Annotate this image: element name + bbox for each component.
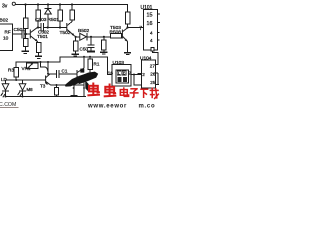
- wire resistor x60 down: [59, 21, 61, 28]
- wire base T3: [6, 79, 46, 81]
- wire to IC101 pin7: [128, 27, 144, 29]
- wire C501 to base node: [24, 33, 30, 35]
- svg-text:16: 16: [108, 71, 114, 76]
- resistor R bias upper: [23, 18, 28, 29]
- wire T503 emitter to ground: [127, 42, 129, 53]
- svg-text:VR1: VR1: [22, 66, 31, 71]
- svg-text:LD: LD: [1, 77, 8, 82]
- svg-text:C1: C1: [62, 69, 68, 74]
- capacitor C502: [40, 23, 42, 32]
- pin4a stub: [158, 32, 160, 34]
- svg-text:4: 4: [150, 31, 153, 36]
- resistor R501: [58, 10, 63, 21]
- svg-text:4: 4: [150, 38, 153, 43]
- red char chong2: [104, 84, 117, 97]
- svg-text:C501: C501: [14, 27, 26, 33]
- resistor R collector T501: [36, 10, 41, 21]
- resistor R502: [70, 10, 75, 20]
- wire C1 to T4 base: [59, 73, 77, 75]
- wire to C1 node: [47, 62, 49, 74]
- wire rail branch x25.5: [25, 5, 27, 19]
- labels: [0, 4, 156, 93]
- pin4b stub: [158, 39, 160, 41]
- svg-text:T501: T501: [37, 34, 48, 40]
- svg-text:U103: U103: [113, 60, 125, 66]
- ground under R bias: [25, 47, 27, 51]
- transistor T502: [67, 23, 75, 36]
- capacitor C1: [48, 73, 56, 75]
- wire top supply rail: [16, 5, 128, 13]
- watermark: [0, 69, 159, 110]
- svg-text:U101: U101: [141, 5, 153, 11]
- wire R3 bottom: [15, 77, 17, 80]
- red char dian: [120, 87, 128, 96]
- diode B502: [80, 33, 87, 40]
- black worm icon button: [80, 69, 84, 73]
- wire pin26-25 tie: [157, 73, 159, 85]
- pin2 stub IC104: [138, 73, 142, 75]
- wire bias node: [25, 29, 27, 35]
- svg-text:C503: C503: [35, 17, 47, 23]
- wire IC101 bottom pin to IC104 pin27: [153, 50, 159, 65]
- svg-text:U104: U104: [140, 56, 152, 62]
- transistor T501: [30, 27, 38, 42]
- svg-text:T3: T3: [40, 83, 46, 88]
- transistor T503: [122, 28, 127, 42]
- wire rail branch x60: [59, 5, 61, 11]
- svg-text:D: D: [123, 71, 126, 75]
- resistor R3: [14, 68, 19, 78]
- node rail junctions: [24, 3, 73, 5]
- wire emitter T3 rail: [51, 84, 84, 86]
- svg-text:B502: B502: [78, 28, 90, 34]
- wire rail branch x72: [71, 5, 73, 11]
- node base T501: [25, 33, 27, 35]
- red char zi: [130, 89, 139, 98]
- transistor T3: [46, 74, 51, 85]
- ground G5: [100, 52, 108, 53]
- svg-text:R1: R1: [94, 62, 100, 67]
- red char xia: [140, 89, 148, 98]
- ground G4: [87, 50, 95, 52]
- wire rail branch x48 (diode): [47, 5, 49, 8]
- capacitor C504: [90, 37, 92, 45]
- IC103 inner display box: [116, 70, 129, 83]
- ground G2: [35, 56, 42, 58]
- svg-text:RF: RF: [5, 30, 11, 35]
- battery terminal: [12, 2, 15, 5]
- node collector T503: [126, 26, 128, 28]
- svg-text:R3: R3: [8, 68, 14, 73]
- svg-text:C502: C502: [38, 30, 49, 35]
- resistor R emitter T502: [73, 41, 77, 51]
- node 3V supply label: [0, 0, 1, 1]
- svg-text:L: L: [118, 71, 120, 75]
- black worm icon tail: [85, 81, 90, 92]
- wire IC103 pin17 to IC104: [131, 74, 142, 76]
- pin16 stub: [158, 21, 161, 23]
- svg-text:10: 10: [3, 36, 9, 42]
- resistor R508: [111, 34, 122, 38]
- resistor R1: [89, 56, 91, 58]
- wire collector node T501: [37, 26, 39, 28]
- wire T4 collector: [83, 57, 85, 68]
- svg-text:3v: 3v: [2, 4, 8, 10]
- red char chong1: [87, 83, 100, 96]
- wire emitter to diode: [76, 36, 80, 38]
- resistor emitter T501: [36, 43, 41, 53]
- svg-text:26: 26: [150, 71, 156, 76]
- svg-text:M8: M8: [27, 87, 34, 92]
- svg-text:B02: B02: [0, 18, 8, 24]
- svg-text:www.eewor: www.eewor: [87, 103, 127, 109]
- svg-text:16: 16: [147, 21, 153, 27]
- svg-text:R508: R508: [110, 30, 122, 36]
- potentiometer VR1 box: [27, 63, 39, 68]
- wire mid coupling: [43, 27, 66, 29]
- pin25 stub: [156, 84, 159, 86]
- resistor collector T503: [125, 12, 130, 24]
- black worm icon wing right: [79, 72, 99, 85]
- transistor T4: [77, 68, 84, 81]
- pin27 stub: [156, 64, 159, 66]
- svg-text:R501: R501: [48, 17, 60, 23]
- LED LD1: [5, 80, 7, 84]
- IC104 box: [142, 60, 156, 88]
- resistor R bias lower: [23, 39, 28, 47]
- svg-text:T502: T502: [60, 30, 71, 36]
- diode D501: [45, 7, 52, 9]
- pin26 stub: [156, 72, 159, 74]
- ground G6: [124, 52, 131, 53]
- IC103 box: [112, 65, 131, 87]
- node VR wire dots: [40, 61, 42, 63]
- IC501 box radio: [0, 24, 13, 51]
- wire resistor to collector node: [37, 21, 39, 28]
- IC101 box: [144, 10, 158, 51]
- wire diode to mid wire: [47, 14, 49, 28]
- resistor R mid: [103, 37, 105, 40]
- resistor bottom mid: [56, 85, 58, 88]
- svg-text:25: 25: [150, 80, 156, 85]
- wire box to C501: [13, 33, 22, 35]
- bottom rail: [6, 96, 87, 98]
- node emitter T502: [75, 36, 77, 38]
- svg-text:27: 27: [150, 63, 156, 68]
- red char zai: [150, 88, 159, 99]
- svg-text:C50: C50: [80, 47, 89, 52]
- LED LD2: [22, 80, 24, 84]
- wire resistor x72 to T502 collector: [69, 20, 73, 25]
- svg-text:m.co: m.co: [139, 104, 156, 110]
- svg-text:7: 7: [139, 26, 142, 32]
- capacitor C501: [21, 30, 23, 39]
- pin15 stub: [158, 13, 161, 15]
- black worm icon wing left: [65, 73, 87, 86]
- wire diode out: [87, 36, 111, 38]
- cap/ground x74: [73, 85, 75, 95]
- svg-text:15: 15: [147, 13, 153, 19]
- svg-text:2: 2: [142, 72, 145, 77]
- wire rail branch x38: [37, 5, 39, 11]
- small pin box IC101 bottom: [151, 47, 154, 51]
- wire VR node down curve: [41, 62, 48, 72]
- ground G3: [75, 51, 77, 54]
- wire T4 emitter: [83, 81, 85, 97]
